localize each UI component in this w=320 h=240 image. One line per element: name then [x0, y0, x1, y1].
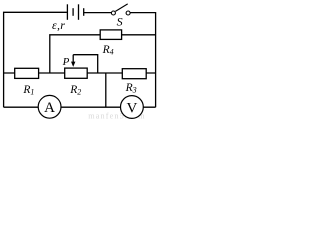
wire slider tap [73, 55, 98, 73]
svg-text:ε,r: ε,r [52, 18, 65, 32]
switch S [111, 4, 130, 15]
resistor R1 [15, 68, 39, 78]
resistor R3 [122, 69, 146, 79]
ammeter A [38, 95, 61, 118]
voltmeter V [120, 96, 143, 119]
svg-text:V: V [126, 100, 137, 116]
wire main row [4, 72, 156, 74]
battery E,r [67, 4, 83, 19]
wire R4 branch [50, 35, 156, 73]
wire node junction to bottom [105, 73, 107, 107]
wire bottom [4, 106, 156, 108]
wire top-left to battery [4, 12, 67, 107]
svg-text:A: A [44, 100, 55, 116]
svg-text:S: S [117, 14, 123, 28]
resistor R4 [100, 30, 121, 40]
wire battery to switch [84, 12, 112, 14]
slider arrow P [71, 55, 75, 67]
rheostat R2 [65, 68, 88, 78]
svg-text:P: P [62, 56, 70, 68]
wire switch to top-right corner and right vertical [130, 13, 155, 108]
background [0, 0, 159, 120]
